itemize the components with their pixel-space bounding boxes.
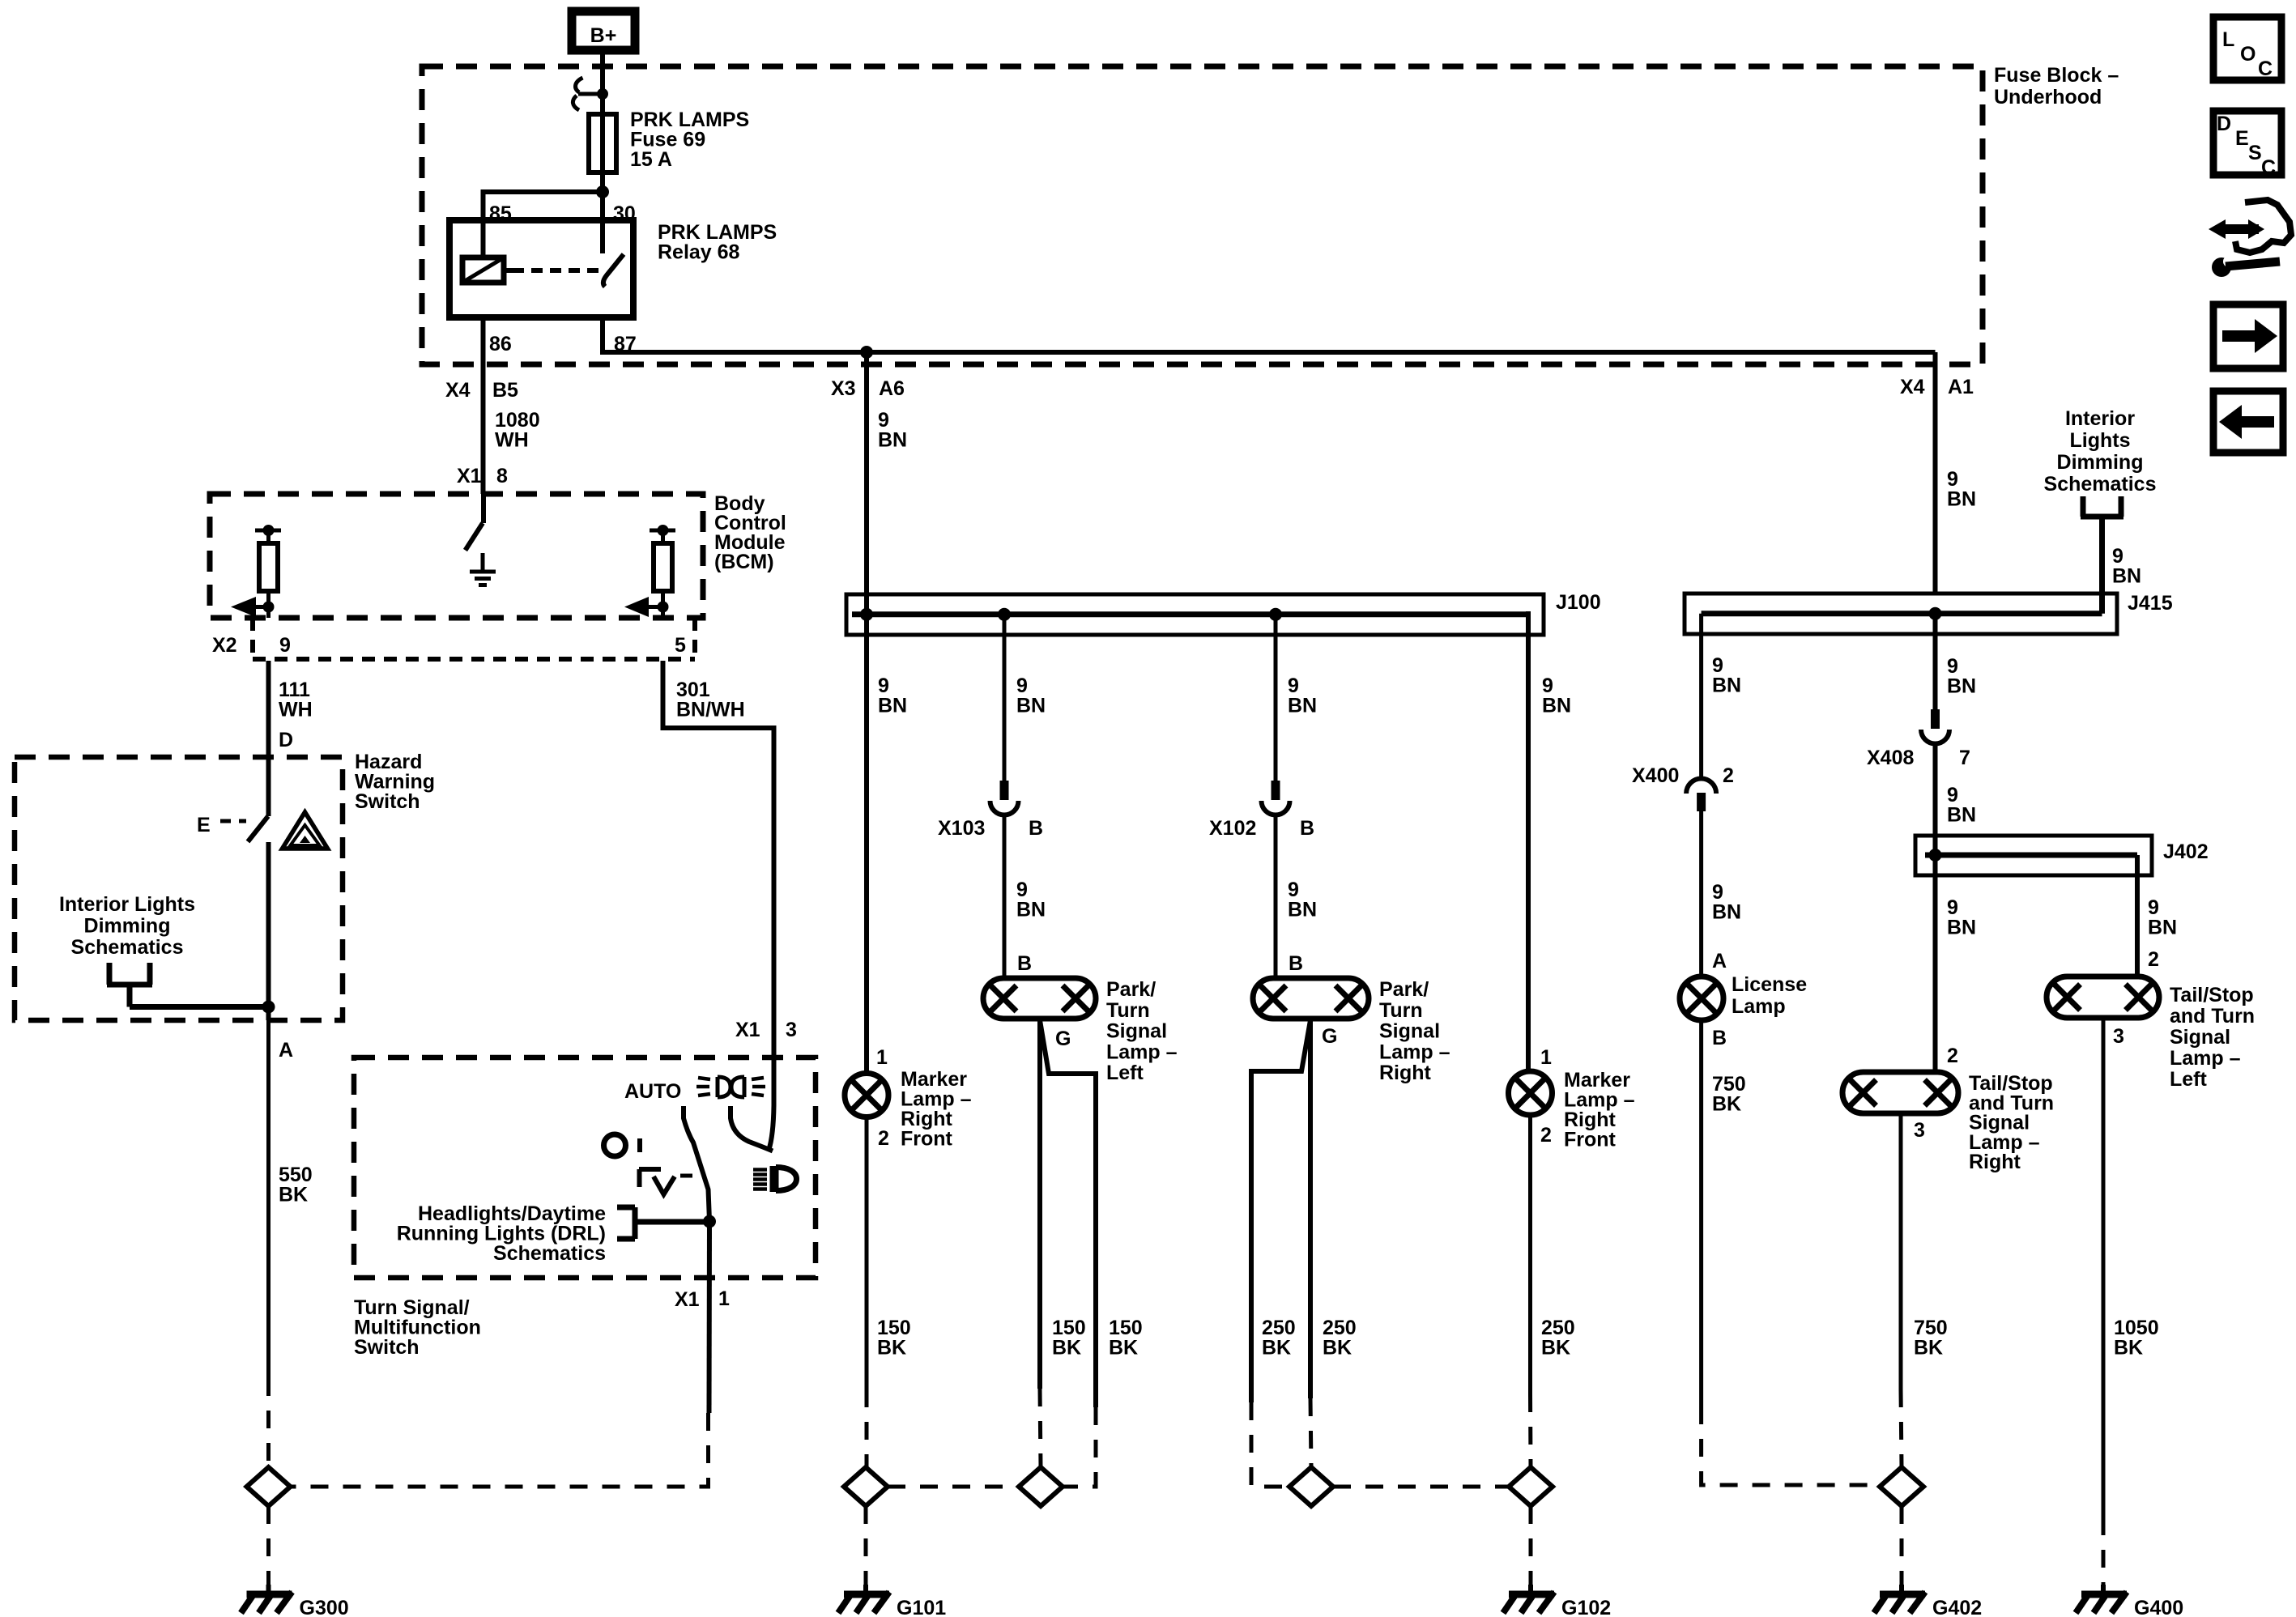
svg-text:A: A <box>1712 950 1727 972</box>
svg-text:B: B <box>1289 952 1303 975</box>
dashed wire to G402 splice <box>1901 1389 1902 1467</box>
park lamps icon <box>639 1169 692 1194</box>
svg-text:B5: B5 <box>492 379 518 402</box>
wire X3 A6 down to J100 <box>864 352 869 615</box>
svg-text:A1: A1 <box>1948 376 1974 398</box>
ground G300 <box>241 1585 292 1613</box>
Fuse Block - Underhood dashed box <box>422 66 1983 364</box>
fuse PRK LAMPS Fuse 69 15 A <box>589 114 616 172</box>
splice diamond G300 column <box>247 1467 291 1506</box>
svg-text:E: E <box>197 814 211 836</box>
wire hazard down 550 BK <box>266 1020 270 1378</box>
svg-text:E: E <box>2235 127 2249 150</box>
dashed wire G102 splice to ground <box>1529 1506 1533 1585</box>
splice diamond park/turn left <box>1019 1467 1063 1506</box>
svg-text:1: 1 <box>1540 1046 1552 1069</box>
wire fuse to relay node 30 <box>600 172 605 192</box>
tail/stop and turn signal lamp left symbol <box>2047 977 2159 1018</box>
svg-text:D: D <box>279 729 293 751</box>
dashed wire to G102 splice <box>1528 1394 1533 1467</box>
headlamps-on icon <box>696 1077 765 1097</box>
wire lamp right G down <box>1308 1019 1313 1398</box>
svg-text:S: S <box>2248 142 2262 164</box>
svg-text:2: 2 <box>2148 948 2159 971</box>
svg-text:C: C <box>2261 156 2276 179</box>
wire X400 to license lamp <box>1699 811 1703 977</box>
junction node J100/X103 <box>998 608 1011 621</box>
wire J402 left column down <box>1933 855 1938 1072</box>
svg-text:250BK: 250BK <box>1323 1317 1357 1360</box>
relay switch contact blade <box>603 254 624 287</box>
svg-text:A: A <box>279 1039 293 1062</box>
relay case <box>449 220 633 317</box>
wire down to X4 A1 <box>1933 352 1938 594</box>
svg-text:550BK: 550BK <box>279 1164 313 1206</box>
wire relay pin 87 feed <box>603 317 1936 352</box>
BCM driver symbol right (pin 5) <box>650 525 675 618</box>
wire hazard switch to splice <box>266 842 271 1020</box>
wire A6 column below J100 <box>864 615 869 1074</box>
svg-text:B: B <box>1029 817 1043 840</box>
svg-text:150BK: 150BK <box>1052 1317 1086 1360</box>
wire tail lamp right down 750 BK <box>1899 1113 1903 1389</box>
marker lamp right front (symbol 1) <box>845 1074 888 1117</box>
junction node switch output <box>703 1215 716 1228</box>
svg-text:G102: G102 <box>1561 1597 1611 1617</box>
svg-text:X4: X4 <box>445 379 471 402</box>
battery clamp symbol <box>576 78 583 92</box>
svg-text:3: 3 <box>1914 1119 1925 1142</box>
wire X2-9 down to hazard switch <box>266 661 271 816</box>
junction block J402 <box>1915 836 2152 875</box>
park/turn signal lamp right symbol <box>1253 978 1369 1019</box>
BCM connector notch X2 <box>253 618 695 661</box>
BCM driver symbol left (pin 9) <box>255 525 281 618</box>
wire tail lamp left down 1050 BK <box>2102 1018 2106 1517</box>
branch wire right 150 BK <box>1040 1020 1096 1407</box>
OFF icon circle <box>604 1134 626 1156</box>
icon DESC box <box>2213 111 2281 179</box>
Hazard Warning Switch dashed box <box>15 757 343 1020</box>
splice diamond G402 <box>1880 1467 1923 1506</box>
park/turn signal lamp left symbol <box>983 978 1096 1019</box>
svg-text:111WH: 111WH <box>279 679 313 721</box>
svg-text:G400: G400 <box>2134 1597 2183 1617</box>
switch contact arc <box>731 1106 773 1151</box>
dashed wire license to G402 splice <box>1702 1406 1880 1485</box>
svg-text:J100: J100 <box>1556 591 1601 614</box>
Body Control Module dashed box <box>210 494 703 618</box>
svg-text:750BK: 750BK <box>1712 1073 1746 1116</box>
svg-text:2: 2 <box>1540 1124 1552 1147</box>
ground G101 <box>838 1585 889 1613</box>
svg-text:2: 2 <box>1947 1045 1958 1067</box>
svg-text:750BK: 750BK <box>1914 1317 1948 1360</box>
svg-text:G101: G101 <box>897 1597 946 1617</box>
svg-text:8: 8 <box>496 465 508 487</box>
wire X408 to J402 <box>1933 744 1938 855</box>
junction node J415/A1 <box>1929 607 1942 620</box>
BCM internal ground <box>470 553 496 585</box>
junction node hazard/dimming <box>262 1001 275 1014</box>
dashed wire to G101 splice <box>865 1389 869 1467</box>
wire BCM pin5 301 BN/WH to X1-3 <box>663 661 774 1105</box>
svg-text:B: B <box>1712 1027 1727 1049</box>
junction node X3/A6 branch <box>860 346 873 359</box>
wire J402 right drop <box>2135 855 2140 977</box>
junction node J100/X102 <box>1269 608 1282 621</box>
inline connector X408 <box>1921 709 1949 744</box>
splice diamond G102 <box>1509 1467 1553 1506</box>
svg-text:1: 1 <box>876 1046 888 1069</box>
wire to relay pin 85 <box>483 192 603 220</box>
svg-text:A6: A6 <box>879 377 905 400</box>
B+ battery feed terminal <box>572 11 635 50</box>
wire pin 85 to coil <box>481 220 486 257</box>
svg-text:J402: J402 <box>2163 840 2209 863</box>
svg-text:X103: X103 <box>938 817 985 840</box>
svg-text:J415: J415 <box>2128 592 2173 615</box>
svg-text:150BK: 150BK <box>877 1317 911 1360</box>
svg-text:Fuse Block –Underhood: Fuse Block –Underhood <box>1994 64 2119 109</box>
branch wire left 250 BK <box>1251 1020 1310 1402</box>
svg-text:9: 9 <box>279 634 291 657</box>
bracket dimming schematics (top right) <box>2081 496 2123 614</box>
bracket to dimming schematics <box>107 963 269 1007</box>
icon arrow right box <box>2213 304 2283 368</box>
dashed wire to ground G400 <box>2102 1517 2106 1585</box>
junction block J100 <box>846 594 1544 635</box>
svg-text:G402: G402 <box>1932 1597 1982 1617</box>
svg-text:7: 7 <box>1959 747 1970 769</box>
svg-text:X1: X1 <box>675 1288 700 1311</box>
svg-text:150BK: 150BK <box>1109 1317 1143 1360</box>
icon LOC box <box>2213 17 2281 80</box>
svg-text:2: 2 <box>878 1127 889 1150</box>
junction block J415 <box>1685 594 2117 634</box>
license lamp symbol <box>1680 977 1723 1020</box>
svg-text:G: G <box>1322 1025 1337 1048</box>
svg-text:X4: X4 <box>1900 376 1925 398</box>
wire marker lamp 2 down 250 BK <box>1528 1115 1532 1394</box>
inline connector X103 <box>990 781 1019 815</box>
svg-text:1: 1 <box>718 1287 730 1310</box>
svg-text:X3: X3 <box>831 377 856 400</box>
wire J415 left drop to X400 <box>1699 614 1703 779</box>
arrow out left (pin 5 driver) <box>624 597 669 617</box>
BCM internal switch from X1-8 <box>481 494 486 523</box>
ground G402 <box>1874 1585 1925 1613</box>
svg-text:3: 3 <box>786 1019 797 1041</box>
wire marker lamp 1 down 150 BK <box>865 1117 869 1390</box>
svg-text:B: B <box>1017 952 1032 975</box>
splice diamond G101 <box>844 1467 888 1506</box>
junction node J100/A6 <box>860 608 873 621</box>
wire license lamp down 750 BK <box>1699 1020 1703 1406</box>
hazard switch blade <box>248 816 268 842</box>
wire pin 30 to contact <box>600 220 605 253</box>
junction node above relay <box>596 185 609 198</box>
svg-text:X408: X408 <box>1867 747 1914 769</box>
svg-text:G300: G300 <box>300 1597 349 1617</box>
svg-text:L: L <box>2222 28 2234 51</box>
junction node J402 <box>1929 849 1942 862</box>
svg-text:D: D <box>2217 113 2231 135</box>
wire J100 right drop <box>1526 611 1531 1073</box>
dashed wires to splice (park/turn right) <box>1251 1402 1289 1487</box>
ground G400 <box>2076 1585 2127 1613</box>
wire relay pin 86 down to X4 B5 <box>481 317 486 494</box>
dashed wire to G300 splice <box>266 1378 270 1467</box>
inline connector X400 <box>1686 779 1716 812</box>
relay actuator dashed link <box>504 268 513 273</box>
icon arrow left box <box>2213 391 2283 453</box>
svg-text:C: C <box>2258 57 2273 80</box>
tail/stop and turn signal lamp right symbol <box>1842 1072 1958 1113</box>
dashed wire G101 splice to ground <box>864 1506 868 1585</box>
svg-text:X400: X400 <box>1632 764 1679 787</box>
svg-text:3: 3 <box>2113 1025 2124 1048</box>
low beam headlamp icon <box>753 1166 797 1192</box>
svg-text:5: 5 <box>675 634 686 657</box>
relay coil <box>462 257 504 283</box>
wire switch output down X1-1 <box>707 1222 713 1414</box>
wire J100 to X102 <box>1274 615 1278 782</box>
bracket DRL schematics <box>617 1207 709 1239</box>
Turn Signal Multifunction Switch dashed box <box>354 1057 816 1278</box>
svg-text:X1: X1 <box>735 1019 760 1041</box>
svg-text:250BK: 250BK <box>1262 1317 1296 1360</box>
hazard warning triangle icon <box>283 812 328 849</box>
svg-text:AUTO: AUTO <box>624 1080 681 1103</box>
marker lamp right front (symbol 2) <box>1509 1071 1553 1115</box>
wire B+ to fuse <box>600 50 605 114</box>
dashed link to G102 splice <box>1333 1485 1509 1489</box>
dashed wire X1-1 to G300 splice <box>291 1413 709 1487</box>
dashed link G101 splice to park/turn left splice <box>888 1485 1019 1489</box>
svg-text:86: 86 <box>489 333 512 355</box>
svg-text:2: 2 <box>1723 764 1734 787</box>
wire J100 to X103 <box>1003 615 1007 782</box>
dashed wires to splice (park/turn left) <box>1040 1389 1041 1467</box>
svg-text:B: B <box>1300 817 1314 840</box>
svg-text:G: G <box>1055 1028 1071 1050</box>
icon diagnostic wrench with arrows <box>2209 200 2291 277</box>
inline connector X102 <box>1262 781 1290 815</box>
dashed wire G402 splice to ground <box>1900 1506 1904 1585</box>
wire lamp left G down <box>1037 1019 1042 1389</box>
wire X102 to lamp <box>1274 815 1278 978</box>
wire X103 to lamp <box>1003 815 1007 978</box>
svg-text:X1: X1 <box>457 465 482 487</box>
svg-text:O: O <box>2240 43 2256 66</box>
wire J415 down to X408 <box>1933 614 1938 711</box>
relay PRK LAMPS Relay 68 <box>449 220 633 317</box>
svg-text:250BK: 250BK <box>1541 1317 1575 1360</box>
svg-text:X102: X102 <box>1209 817 1256 840</box>
svg-text:X2: X2 <box>212 634 237 657</box>
svg-text:B+: B+ <box>590 24 617 47</box>
dashed wire splice to G300 <box>266 1506 270 1585</box>
arrow out left (pin 9 driver) <box>231 597 275 617</box>
ground G102 <box>1503 1585 1554 1613</box>
AUTO switch wiper blade <box>684 1106 709 1221</box>
X1-3 wire hook end <box>769 1105 774 1151</box>
splice diamond park/turn right <box>1289 1467 1333 1506</box>
